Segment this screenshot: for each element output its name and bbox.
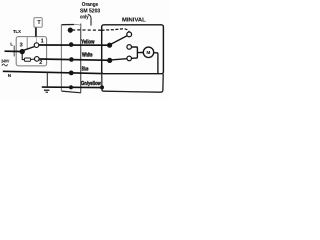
svg-text:Blue: Blue [82, 66, 89, 72]
svg-text:White: White [82, 52, 93, 58]
svg-text:only: only [80, 14, 89, 20]
svg-text:Orange: Orange [82, 2, 98, 8]
svg-text:Yellow: Yellow [81, 40, 95, 46]
svg-text:L: L [10, 42, 13, 48]
svg-text:M: M [146, 50, 150, 55]
svg-text:240V: 240V [1, 58, 10, 63]
svg-text:1: 1 [41, 39, 44, 45]
svg-text:3: 3 [20, 42, 23, 48]
svg-text:Gn/yellow: Gn/yellow [81, 81, 102, 87]
svg-text:MINIVAL: MINIVAL [122, 17, 146, 23]
svg-text:2: 2 [39, 60, 42, 66]
svg-text:TLX: TLX [13, 29, 22, 35]
